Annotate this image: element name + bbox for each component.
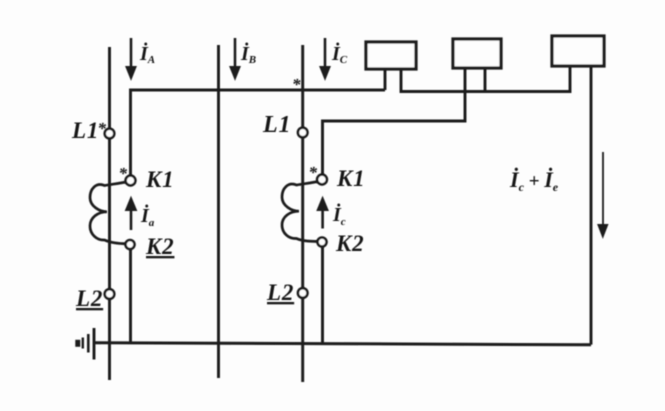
svg-text:*: * <box>119 164 128 183</box>
svg-text:İc + İe: İc + İe <box>509 167 559 194</box>
svg-text:L1: L1 <box>71 118 99 143</box>
svg-text:K2: K2 <box>335 231 364 256</box>
svg-text:K1: K1 <box>336 166 365 191</box>
svg-text:*: * <box>98 119 107 138</box>
svg-text:İA: İA <box>139 41 155 66</box>
svg-text:İa: İa <box>140 203 155 229</box>
svg-text:*: * <box>292 75 301 94</box>
svg-text:İB: İB <box>240 41 256 66</box>
svg-text:İc: İc <box>332 202 346 228</box>
svg-text:K1: K1 <box>145 167 174 192</box>
svg-text:L1: L1 <box>262 112 291 138</box>
svg-text:K2: K2 <box>145 234 174 259</box>
svg-text:L2: L2 <box>75 286 103 311</box>
svg-text:İC: İC <box>331 41 348 66</box>
svg-text:*: * <box>309 163 318 182</box>
svg-text:L2: L2 <box>266 280 294 305</box>
